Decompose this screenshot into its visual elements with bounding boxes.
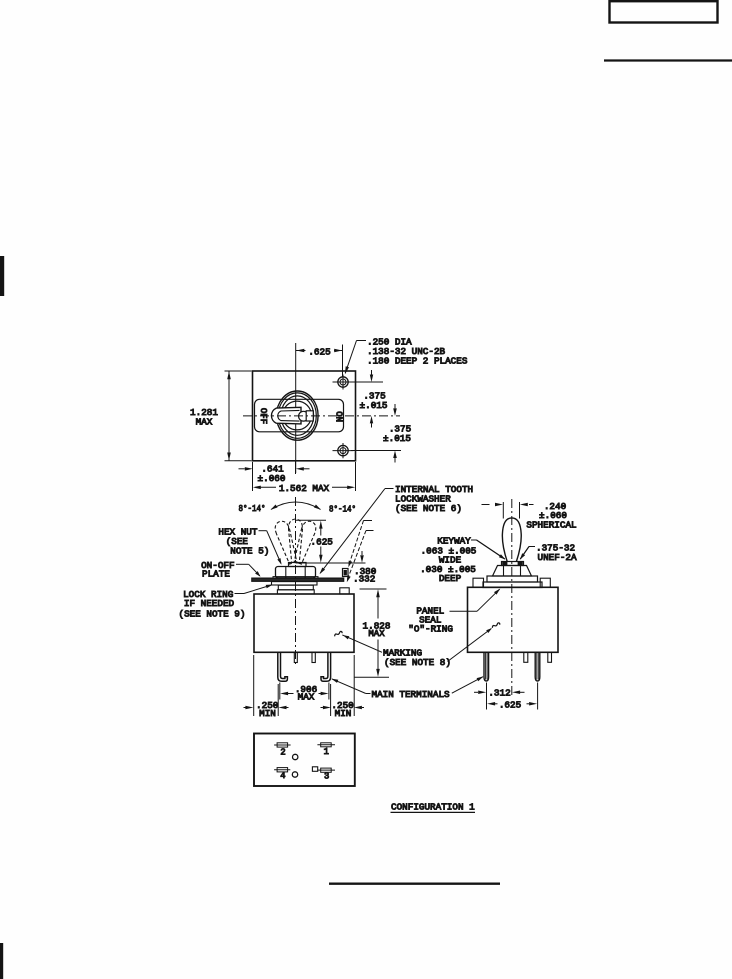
toggle lever tip circle [299, 411, 309, 421]
terminal symbol 1 [317, 743, 335, 747]
svg-text:NOTE 5): NOTE 5) [230, 546, 269, 557]
svg-text:3: 3 [324, 771, 329, 781]
staggered leader .332 [347, 531, 374, 583]
terminal configuration box [254, 734, 355, 787]
center pin right [312, 652, 315, 662]
svg-text:(SEE NOTE 8): (SEE NOTE 8) [384, 657, 451, 668]
svg-text:.625: .625 [308, 346, 330, 357]
keyway plate (right view) [502, 562, 524, 566]
label 8-14 deg right [329, 505, 356, 515]
top view horizontal centerline [243, 415, 400, 417]
hex bushing (right view) [493, 566, 532, 577]
terminal number 4 [280, 771, 285, 781]
toggle guard inner ring [281, 396, 314, 435]
terminal symbol 4 [274, 768, 290, 772]
dim .625 (top) [296, 345, 343, 377]
title block box (top right) [610, 1, 718, 22]
right view vertical centerline [511, 499, 513, 697]
bat lever (right view) [502, 518, 521, 562]
footer rule (bottom center) [329, 883, 500, 885]
label INTERNAL TOOTH LOCKWASHER [320, 484, 474, 574]
label 8-14 deg left [239, 504, 266, 514]
keyway lug on plate right [343, 569, 349, 577]
dim .250 MIN left [244, 655, 289, 719]
svg-text:MAX: MAX [298, 692, 315, 703]
svg-text:.312: .312 [488, 688, 510, 699]
marking squiggle [335, 631, 342, 636]
label OFF (rotated) [258, 408, 268, 424]
binder mark upper left [0, 256, 4, 296]
label HEX NUT [218, 527, 281, 565]
label .380 [354, 566, 376, 577]
label ON (rotated) [333, 411, 343, 422]
svg-text:DEEP: DEEP [439, 573, 462, 584]
mounting hole upper [333, 375, 351, 390]
svg-text:SPHERICAL: SPHERICAL [526, 520, 576, 531]
svg-text:±.015: ±.015 [360, 400, 388, 411]
label ON-OFF PLATE [201, 560, 260, 579]
panel seal flange [483, 582, 542, 588]
center pin left [294, 652, 297, 662]
hook terminal left [278, 652, 288, 681]
short pin left (right view) [524, 652, 528, 662]
bat lever tilted left (dashed) [273, 519, 300, 565]
svg-text:MIN: MIN [259, 708, 276, 719]
keying tab right (right view) [540, 578, 550, 587]
toggle guard outer ring [277, 391, 319, 440]
callout .250 DIA 2 places [345, 336, 468, 374]
dim .641 (below plate) [239, 461, 310, 491]
hex nut (left view) [276, 567, 316, 578]
dim 1.281 MAX (left) [190, 371, 251, 461]
mounting hole lower [333, 443, 354, 458]
switch body (left view) [254, 594, 354, 652]
throw angle arc [271, 502, 321, 510]
svg-text:8°-14°: 8°-14° [329, 505, 356, 515]
dim .375 upper (right) [351, 370, 388, 428]
main terminal left (right view) [484, 652, 489, 681]
label .375-32 UNEF-2A [520, 543, 577, 563]
svg-text:1: 1 [324, 747, 329, 757]
dim .906 MAX [280, 683, 329, 703]
top view recessed band [255, 399, 344, 432]
staggered leader .380 [348, 521, 372, 568]
terminal symbol 2 [274, 743, 291, 747]
terminal number 1 [324, 747, 329, 757]
svg-text:.332: .332 [353, 574, 375, 585]
label KEYWAY block [420, 536, 505, 585]
label .332 [353, 574, 375, 585]
lock ring (side) [272, 582, 318, 585]
dim 1.562 MAX [253, 462, 356, 494]
svg-text:CONFIGURATION 1: CONFIGURATION 1 [391, 802, 475, 813]
toggle guard outer ring 2 [278, 393, 316, 438]
lockwasher (left view) [273, 577, 318, 579]
terminal number 2 [280, 747, 285, 757]
dim .625 (lever height) [296, 520, 366, 563]
bat lever tilted right (dashed) [291, 519, 318, 565]
pivot circle upper [293, 754, 298, 759]
keyway mark square [312, 767, 317, 772]
dim .312 [474, 683, 525, 710]
dim .240 spherical [482, 501, 577, 531]
svg-text:(SEE NOTE 9): (SEE NOTE 9) [179, 608, 246, 619]
main terminal right (right view) [535, 652, 540, 681]
svg-text:(SEE NOTE 6): (SEE NOTE 6) [395, 503, 462, 514]
svg-text:.625: .625 [311, 536, 333, 547]
terminal number 3 [324, 771, 329, 781]
svg-text:"O"-RING: "O"-RING [408, 623, 453, 634]
svg-text:ON: ON [333, 411, 343, 422]
dim .250 MIN right [321, 655, 365, 719]
label SEE NOTE 8 [384, 657, 451, 668]
binder mark lower left [0, 943, 3, 979]
svg-text:UNEF-2A: UNEF-2A [538, 552, 577, 563]
stack height arrow [360, 551, 364, 563]
svg-text:MIN: MIN [335, 708, 352, 719]
svg-text:2: 2 [280, 747, 285, 757]
svg-text:PLATE: PLATE [202, 568, 230, 579]
bat lever center position (dashed) [289, 519, 303, 563]
svg-text:.180 DEEP 2 PLACES: .180 DEEP 2 PLACES [367, 355, 468, 366]
short pin right (right view) [548, 652, 552, 662]
svg-text:4: 4 [280, 771, 285, 781]
header rule (top right) [604, 59, 732, 61]
marking squiggle (right view) [492, 623, 499, 628]
svg-text:MAX: MAX [196, 416, 213, 427]
hook terminal right [321, 652, 331, 681]
svg-text:MAX: MAX [368, 629, 385, 639]
on-off plate (side) [252, 578, 344, 581]
bushing stem base [289, 563, 307, 567]
label CONFIGURATION 1 [391, 802, 476, 813]
top view mounting plate outline [253, 371, 356, 461]
svg-text:OFF: OFF [258, 408, 268, 424]
dim 1.828 MAX [355, 589, 391, 677]
bushing flange upper [278, 585, 313, 590]
top view vertical centerline [295, 343, 297, 473]
svg-text:±.015: ±.015 [383, 433, 411, 444]
pivot circle lower [292, 772, 297, 777]
svg-text:1.562 MAX: 1.562 MAX [279, 483, 330, 494]
svg-text:MAIN TERMINALS: MAIN TERMINALS [372, 689, 451, 700]
switch body (right view) [468, 587, 559, 652]
bushing ring (right view) [487, 576, 538, 582]
marking leader (right view) [448, 628, 493, 662]
left view vertical centerline [295, 497, 297, 666]
label PANEL SEAL O-RING [408, 589, 500, 635]
marking leader [342, 635, 382, 652]
keying tab right (left view) [340, 588, 349, 594]
dim .625 (right view) [487, 683, 537, 711]
keying tab left (right view) [473, 578, 484, 587]
dim .375 lower (right) [351, 404, 411, 463]
svg-text:8°-14°: 8°-14° [239, 504, 266, 514]
toggle lever (pointing to OFF) [271, 407, 301, 424]
label LOCK RING IF NEEDED [179, 585, 273, 620]
label MAIN TERMINALS [331, 676, 483, 700]
svg-text:.625: .625 [499, 699, 521, 710]
bushing flange lower [277, 590, 314, 594]
toggle bushing circle [283, 401, 312, 430]
terminal symbol 3 [317, 768, 335, 772]
label MARKING [383, 648, 422, 659]
toggle keyway square [306, 411, 313, 421]
